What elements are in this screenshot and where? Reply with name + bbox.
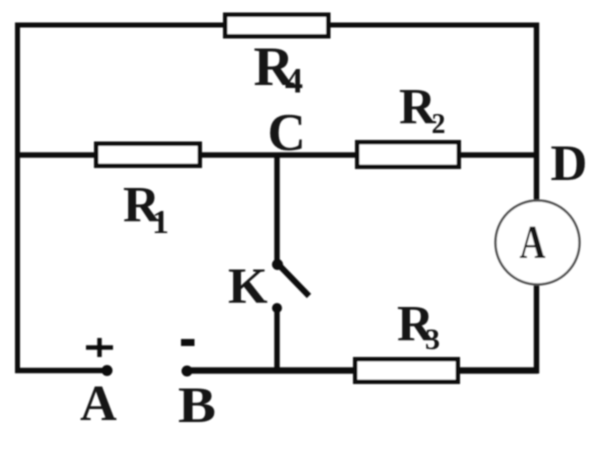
svg-text:C: C — [268, 104, 306, 162]
wire right branch lower — [534, 285, 540, 374]
svg-text:1: 1 — [152, 204, 169, 241]
resistor R2 — [357, 142, 459, 167]
svg-text:K: K — [228, 259, 268, 315]
svg-text:D: D — [551, 136, 588, 192]
wire right branch upper — [534, 23, 540, 202]
wire top loop via R4 — [15, 23, 536, 28]
resistor R3 — [355, 359, 458, 382]
svg-text:B: B — [178, 378, 216, 434]
wire bottom left to terminal A — [15, 368, 105, 374]
svg-text:4: 4 — [285, 61, 303, 101]
ammeter A meter circle — [496, 201, 580, 285]
polarity plus sign — [86, 338, 113, 357]
svg-text:3: 3 — [425, 323, 440, 356]
svg-text:A: A — [80, 376, 117, 432]
wire switch to bottom row — [274, 308, 280, 373]
wire left branch — [15, 23, 20, 373]
svg-text:2: 2 — [432, 109, 446, 140]
terminal B dot — [182, 366, 193, 377]
wire node C to switch — [274, 155, 280, 262]
svg-text:A: A — [520, 216, 546, 269]
switch K lower contact — [272, 303, 282, 313]
resistor R1 — [96, 144, 200, 166]
wire bottom right from B to right branch — [187, 367, 538, 374]
polarity minus sign — [181, 339, 195, 346]
resistor R4 — [225, 15, 328, 37]
switch K upper contact — [272, 259, 283, 270]
wire middle row — [15, 152, 538, 158]
switch K blade — [278, 264, 309, 296]
terminal A dot — [102, 365, 113, 376]
